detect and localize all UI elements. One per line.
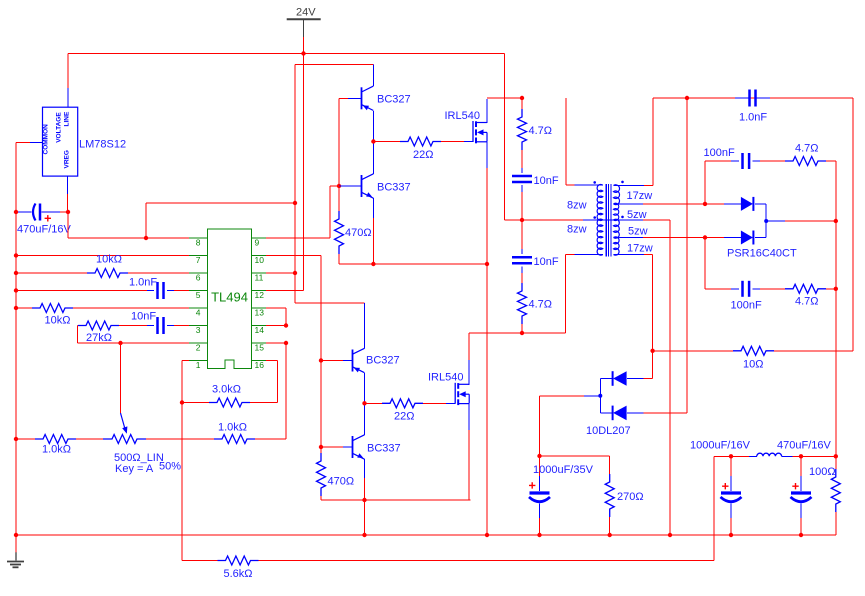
svg-text:LINE: LINE (64, 111, 71, 126)
resistor R12 470 lower (317, 447, 355, 500)
wire center tap (505, 54, 614, 220)
wire left bus (15, 212, 17, 552)
svg-text:10nF: 10nF (131, 311, 156, 323)
wire lower bus to main (364, 500, 366, 535)
node c11 top (729, 454, 733, 458)
svg-text:TL494: TL494 (211, 290, 248, 305)
resistor R10 22 lower (365, 399, 456, 423)
node bases lower2 (319, 445, 323, 449)
node emitter bus Q2 (371, 262, 375, 266)
wire pin13 (266, 308, 286, 326)
resistor R19 100 (809, 456, 840, 535)
wire Q3 emitter down (364, 373, 366, 403)
svg-text:1: 1 (196, 360, 201, 370)
wire upper emitter bus (339, 263, 487, 265)
node driver lower (362, 401, 366, 405)
svg-text:10Ω: 10Ω (743, 359, 763, 371)
node emitter bus lower (362, 498, 366, 502)
svg-text:4.7Ω: 4.7Ω (529, 125, 553, 137)
mosfet Q5 IRL540 upper (445, 110, 488, 143)
wire d1 cathode (765, 204, 767, 221)
node bases lower1 (319, 358, 323, 362)
svg-text:16: 16 (255, 360, 265, 370)
node left bus pin6 (14, 271, 18, 275)
svg-text:470uF/16V: 470uF/16V (777, 440, 831, 452)
svg-text:6: 6 (196, 273, 201, 283)
wire pin12 to rail (266, 54, 303, 291)
svg-text:BC327: BC327 (377, 94, 411, 106)
resistor R5 27k + capacitor C4 10nF (78, 311, 189, 345)
svg-text:10nF: 10nF (534, 256, 559, 268)
svg-text:50%: 50% (159, 461, 181, 473)
node c12 bottom (799, 533, 803, 537)
wire 35v row (540, 456, 610, 474)
label TL494 (211, 290, 248, 305)
capacitor C8 100nF lower (705, 281, 785, 312)
node snub bottom (834, 287, 838, 291)
wire lower emitter bus (321, 499, 470, 501)
inductor L1 (731, 453, 792, 456)
wire pin2 row (78, 342, 189, 344)
svg-text:470Ω: 470Ω (345, 227, 372, 239)
transformer primary coils 8zw+8zw (567, 185, 603, 256)
svg-text:3.0kΩ: 3.0kΩ (212, 384, 241, 396)
wire sec lead2 (614, 203, 741, 205)
svg-text:10DL207: 10DL207 (586, 425, 631, 437)
wire rail to LM78S12 input (67, 54, 69, 108)
resistor R18 270 (605, 474, 643, 535)
wire Q6 source down (468, 404, 470, 500)
wire snub top left (704, 161, 706, 204)
mosfet Q6 IRL540 lower (428, 372, 469, 406)
resistor R15 4.7 (785, 143, 826, 166)
svg-text:Key = A: Key = A (115, 463, 154, 475)
svg-text:1.0kΩ: 1.0kΩ (42, 444, 71, 456)
node pin2 wiper (118, 341, 122, 345)
svg-text:470uF/16V: 470uF/16V (17, 224, 71, 236)
node lower bus main (362, 533, 366, 537)
diode D2 PSR16C40CT (727, 221, 797, 260)
svg-text:LM78S12: LM78S12 (79, 139, 126, 151)
svg-text:12: 12 (255, 290, 265, 300)
diode D1 PSR16C40CT (741, 197, 766, 211)
svg-text:3: 3 (196, 325, 201, 335)
capacitor C3 1.0nF (16, 277, 189, 300)
svg-text:BC337: BC337 (367, 443, 401, 455)
node driver upper (371, 139, 375, 143)
node dc out (834, 219, 838, 223)
pin COMMON label (43, 124, 50, 155)
wire Q4 emitter down (364, 459, 366, 500)
wire snub bottom left (704, 238, 706, 289)
wire sec lead3 center (614, 220, 671, 535)
wire primary top (566, 98, 603, 185)
resistor R14 4.7 lower (518, 283, 553, 333)
wire right col 852 (852, 98, 854, 351)
transistor Q1 BC327 (362, 86, 411, 110)
wire primary bottom (566, 255, 603, 334)
wire snub top right (826, 161, 836, 456)
wire R6 to pins col (255, 343, 286, 439)
svg-text:8: 8 (196, 238, 201, 248)
svg-text:100Ω: 100Ω (809, 466, 836, 478)
svg-text:100nF: 100nF (704, 147, 735, 159)
wire emitter column (295, 64, 373, 303)
wire pin1 (182, 361, 189, 561)
node c10 top (537, 454, 541, 458)
pin VOLTAGE LINE label (56, 111, 71, 143)
wire Q1 emitter down (372, 111, 374, 142)
node left bus pot row (14, 437, 18, 441)
svg-text:10kΩ: 10kΩ (96, 254, 122, 266)
resistor R1 10k (16, 304, 189, 327)
wire Q4 collector to node (364, 403, 366, 435)
node left bus pin7 (14, 253, 18, 257)
transistor Q4 BC337 lower (321, 435, 401, 459)
svg-text:7: 7 (196, 255, 201, 265)
svg-text:4.7Ω: 4.7Ω (795, 296, 819, 308)
wire pin9 to bases (266, 186, 339, 238)
node c11 bottom (729, 533, 733, 537)
wire Q6 drain up (469, 333, 565, 385)
node pin14 col (284, 323, 288, 327)
node R3 left (180, 400, 184, 404)
wire Q2 emitter down (372, 198, 374, 264)
wire pin8 up and right (146, 203, 295, 238)
node bases upper (337, 184, 341, 188)
svg-text:22Ω: 22Ω (413, 149, 433, 161)
wire common cathode row (766, 220, 836, 222)
wire 24V rail (68, 53, 505, 55)
wire wiper vertical (120, 343, 122, 413)
wire snub bottom right (826, 288, 836, 290)
svg-text:9: 9 (255, 238, 260, 248)
node rail junction (301, 51, 305, 55)
ic U1 TL494 box (208, 229, 252, 369)
svg-text:14: 14 (255, 325, 265, 335)
svg-text:8zw: 8zw (567, 200, 587, 212)
diode D4 10DL207 (586, 406, 687, 437)
svg-text:1000uF/35V: 1000uF/35V (533, 464, 594, 476)
svg-text:4.7Ω: 4.7Ω (529, 299, 553, 311)
node pin11 (293, 271, 297, 275)
wire Q2 collector to node (372, 142, 374, 174)
svg-text:PSR16C40CT: PSR16C40CT (727, 248, 797, 260)
resistor R13 4.7 (518, 98, 553, 150)
node d1 anode (703, 202, 707, 206)
transformer phase dots (593, 181, 623, 219)
resistor R7 1.0k (16, 435, 103, 456)
resistor R9 22 (373, 137, 473, 161)
transistor Q3 BC327 lower (321, 348, 400, 372)
node sec top col (685, 96, 689, 100)
resistor R17 10 (653, 346, 853, 370)
wire pin11 (266, 272, 295, 274)
diode D3 10DL207 (600, 351, 652, 386)
svg-text:24V: 24V (296, 7, 316, 19)
svg-text:2: 2 (196, 343, 201, 353)
capacitor C12 470uF/16V (777, 440, 831, 536)
wire pin16 to R3 (266, 361, 278, 403)
svg-text:1.0nF: 1.0nF (739, 112, 767, 124)
wire Q3 collector up (364, 303, 366, 348)
ic pins and numbers (189, 238, 266, 371)
wire LM78S12 common to left bus (16, 142, 43, 212)
svg-text:1.0nF: 1.0nF (129, 277, 157, 289)
svg-text:VREG: VREG (64, 150, 71, 168)
wire sec lead1 (614, 98, 853, 186)
node left bus pin5 (14, 288, 18, 292)
node col522 bottom (520, 331, 524, 335)
svg-text:100nF: 100nF (731, 300, 762, 312)
wire 27k left leg (77, 326, 79, 344)
wire pin10 down (266, 256, 321, 448)
node d2 anode (703, 235, 707, 239)
ground (7, 552, 24, 567)
node left bus pin4 (14, 306, 18, 310)
node col522 mid (520, 218, 524, 222)
resistor R3 3.0k (182, 384, 278, 408)
capacitor C9 1.0nF (687, 90, 853, 124)
svg-text:IRL540: IRL540 (428, 372, 463, 384)
node left bus bottom (14, 533, 18, 537)
wire sec lead4 (614, 237, 741, 239)
voltage regulator U2 LM78S12 box (43, 107, 78, 176)
wire bases tie upper (339, 98, 362, 186)
wire out row (714, 455, 836, 457)
wire pin7 row (16, 255, 189, 257)
svg-text:22Ω: 22Ω (394, 411, 414, 423)
wire Q1 collector up (372, 64, 374, 86)
resistor R16 4.7 lower (785, 284, 826, 307)
svg-text:5: 5 (196, 290, 201, 300)
svg-text:COMMON: COMMON (43, 124, 50, 155)
svg-text:470Ω: 470Ω (328, 476, 355, 488)
node c10 bottom (537, 533, 541, 537)
capacitor C11 1000uF/16V (690, 440, 751, 536)
wire pot to R6 (146, 438, 214, 440)
node cap right (66, 210, 70, 214)
capacitor C1 470uF/16V (16, 204, 71, 236)
capacitor C5 10nF (512, 150, 559, 220)
node col522 top (520, 96, 524, 100)
node Q5 source bus (485, 533, 489, 537)
svg-text:17zw: 17zw (627, 190, 653, 202)
svg-text:4.7Ω: 4.7Ω (795, 143, 819, 155)
wire cap to pin8 row (68, 212, 189, 238)
node sec ct bus (668, 533, 672, 537)
svg-text:1000uF/16V: 1000uF/16V (690, 440, 751, 452)
node 10DL common (598, 394, 602, 398)
node c12 top (799, 454, 803, 458)
capacitor C7 100nF (704, 147, 786, 169)
svg-text:BC327: BC327 (366, 355, 400, 367)
svg-text:13: 13 (255, 308, 265, 318)
node out top (834, 454, 838, 458)
node 10ohm left (650, 349, 654, 353)
transformer secondary coils (614, 185, 653, 255)
wire 10DL common (540, 379, 601, 457)
transistor Q2 BC337 (339, 174, 411, 198)
node common cathode (764, 219, 768, 223)
capacitor C10 1000uF/35V (529, 456, 594, 535)
svg-text:BC337: BC337 (377, 182, 411, 194)
wire pin14 (266, 325, 286, 327)
svg-text:5.6kΩ: 5.6kΩ (224, 568, 253, 580)
pin VREG label (64, 150, 71, 168)
potentiometer R8 500_LIN (103, 413, 181, 475)
wire LM78S12 vreg down (67, 176, 69, 212)
wire diode2 col (686, 98, 688, 413)
power 24V (287, 7, 321, 54)
svg-text:1.0kΩ: 1.0kΩ (218, 422, 247, 434)
svg-text:15: 15 (255, 343, 265, 353)
resistor R4 5.6k (182, 556, 714, 580)
wire Q5 source down (486, 142, 488, 535)
wire feedback down (713, 456, 715, 560)
wire pin15 (266, 342, 286, 344)
node pin15 col (284, 341, 288, 345)
wire Q5 drain up (487, 98, 522, 123)
transformer core (606, 184, 611, 257)
node pin8 wire (144, 236, 148, 240)
svg-text:5zw: 5zw (627, 209, 647, 221)
svg-text:VOLTAGE: VOLTAGE (56, 112, 63, 143)
resistor R11 470 (335, 186, 372, 264)
svg-text:IRL540: IRL540 (445, 110, 480, 122)
label LM78S12 (79, 139, 126, 151)
svg-text:10nF: 10nF (534, 175, 559, 187)
node r18 bottom (608, 533, 612, 537)
resistor R2 10k (16, 254, 189, 278)
resistor R6 1.0k (214, 422, 255, 444)
capacitor C6 10nF lower (512, 220, 559, 283)
svg-text:27kΩ: 27kΩ (86, 332, 112, 344)
svg-text:5zw: 5zw (628, 226, 648, 238)
wire bottom bus (16, 534, 836, 536)
svg-text:10: 10 (255, 255, 265, 265)
node cap left (14, 210, 18, 214)
svg-text:10kΩ: 10kΩ (45, 315, 71, 327)
svg-text:4: 4 (196, 308, 201, 318)
node on emitter column (293, 201, 297, 205)
svg-text:270Ω: 270Ω (617, 491, 644, 503)
svg-text:17zw: 17zw (627, 243, 653, 255)
svg-text:11: 11 (255, 273, 264, 283)
svg-text:8zw: 8zw (567, 224, 587, 236)
node emitter bus mosfet (485, 262, 489, 266)
wire sec lead5 (614, 255, 653, 351)
